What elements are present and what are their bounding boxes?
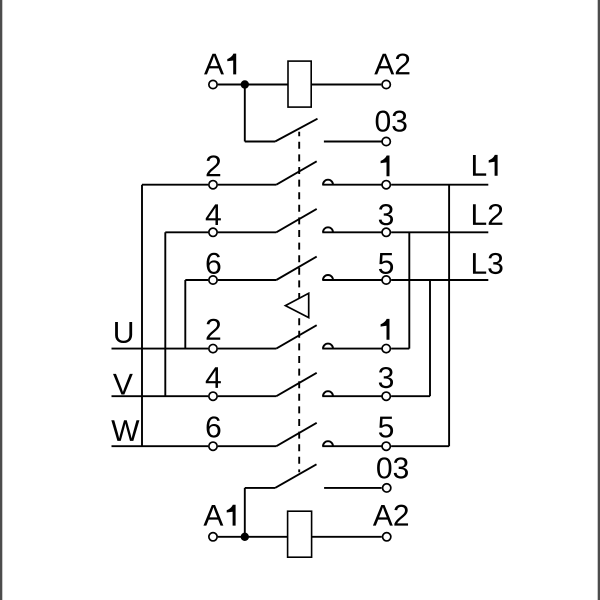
- fixed contact lead 3 (bottom contactor): [322, 395, 381, 397]
- aux contact 03 blade (bottom): [275, 464, 316, 488]
- label "1" (bottom contactor right terminal): [381, 319, 390, 340]
- wire U line to terminal 2 (bottom): [112, 348, 209, 350]
- wire terminal 2 bus down to W row: [141, 185, 143, 447]
- wire W line to terminal 6 (bottom): [112, 445, 209, 447]
- wire terminal 1 to L1: [391, 184, 488, 186]
- wire coil K1 to A2 (top): [311, 84, 381, 86]
- label "1" (top contactor right terminal): [381, 156, 390, 177]
- wire junction to coil K2: [245, 536, 288, 538]
- wire terminal 2 to blade pivot (bottom): [218, 348, 276, 350]
- label "A" of A1 (top coil): [204, 54, 224, 75]
- junction dot at A1 (bottom): [241, 533, 249, 541]
- fixed contact hook 3 (bottom contactor): [323, 391, 333, 396]
- fixed contact lead 1 (bottom contactor): [322, 348, 381, 350]
- wire terminal 4 bus down to V row: [164, 232, 166, 396]
- wire terminal 2 to blade pivot: [218, 184, 276, 186]
- terminal 4 (bottom contactor): [209, 392, 217, 400]
- fixed contact lead 5 (top contactor): [322, 279, 381, 281]
- label "1" of A1 (top coil): [227, 54, 236, 75]
- wire to aux blade pivot (bottom): [245, 487, 275, 489]
- label "2" (bottom contactor left terminal): [207, 319, 221, 340]
- wire junction to coil K1: [245, 84, 288, 86]
- contact blade 6-5 (top contactor): [276, 257, 316, 280]
- terminal 1 (top contactor): [382, 181, 390, 189]
- label "V" (motor phase): [113, 374, 133, 395]
- label "A2" (bottom coil): [373, 505, 393, 526]
- terminal 6 (top contactor): [209, 276, 217, 284]
- terminal A1 (top): [209, 80, 217, 88]
- contact blade 4-3 (bottom contactor): [276, 373, 316, 396]
- wire terminal 3 to L2: [391, 231, 488, 233]
- terminal 03 (bottom): [383, 484, 391, 492]
- fixed contact lead 5 (bottom contactor): [322, 445, 381, 447]
- wire V line to terminal 4 (bottom): [112, 395, 209, 397]
- label "L" of L1: [473, 155, 486, 176]
- coil K1 (top contactor coil): [288, 61, 311, 107]
- terminal A1 (bottom): [209, 533, 217, 541]
- dashed mechanical linkage line: [298, 132, 300, 473]
- left page edge line: [0, 0, 2, 600]
- label "5" (bottom contactor right terminal): [379, 417, 393, 438]
- wire A1 to junction (top): [218, 84, 245, 86]
- contact blade 2-1 (top contactor): [276, 161, 316, 184]
- fixed contact hook 1 (top contactor): [323, 180, 333, 185]
- terminal 4 (top contactor): [209, 228, 217, 236]
- coil K2 (bottom contactor coil): [288, 511, 312, 557]
- wire terminal 6 to blade pivot: [218, 279, 276, 281]
- junction dot at A1 (top): [241, 80, 249, 88]
- label "5" (top contactor right terminal): [379, 253, 393, 274]
- wire L3 bus down to bottom terminal 3: [429, 280, 431, 396]
- wire terminal 4 to blade pivot (bottom): [218, 395, 276, 397]
- aux contact 03 blade (top): [275, 119, 317, 142]
- label "L3": [473, 253, 486, 274]
- wire terminal 1 to crossover bus (bottom): [391, 348, 409, 350]
- label "6" (top contactor left terminal): [207, 253, 221, 274]
- terminal 1 (bottom contactor): [382, 344, 390, 352]
- contact blade 4-3 (top contactor): [276, 209, 316, 232]
- label "03" (bottom aux contact): [377, 457, 391, 478]
- contact blade 2-1 (bottom contactor): [276, 325, 316, 348]
- label "4" (bottom contactor left terminal): [206, 367, 221, 388]
- label "W" (motor phase): [111, 420, 139, 441]
- label "6" (bottom contactor left terminal): [207, 416, 221, 437]
- terminal 6 (bottom contactor): [209, 442, 217, 450]
- terminal 5 (bottom contactor): [382, 442, 390, 450]
- label "4" (top contactor left terminal): [206, 204, 221, 225]
- label "3" (bottom contactor right terminal): [379, 367, 393, 388]
- aux contact 03 fixed lead (top): [324, 141, 382, 143]
- terminal 5 (top contactor): [382, 276, 390, 284]
- wire terminal 5 to L3: [391, 279, 488, 281]
- label "03" (top aux contact): [376, 111, 390, 132]
- label "U" (motor phase): [115, 322, 132, 343]
- label "3" (top contactor right terminal): [379, 204, 393, 225]
- wire terminal 6 bus down to U row: [184, 280, 186, 349]
- right page edge line: [598, 0, 600, 600]
- label "1" of L1: [489, 155, 498, 176]
- wire coil K2 to A2 (bottom): [312, 536, 382, 538]
- fixed contact lead 3 (top contactor): [322, 231, 381, 233]
- wire junction down to aux contact (top): [244, 85, 246, 142]
- terminal A2 (top): [382, 80, 390, 88]
- fixed contact hook 5 (top contactor): [323, 275, 333, 280]
- wire L2 bus down to bottom terminal 1: [408, 232, 410, 348]
- label "2" (top contactor left terminal): [207, 155, 221, 176]
- wire left bus to terminal 6 (top): [185, 279, 208, 281]
- wire left bus to terminal 2 (top): [142, 184, 208, 186]
- wire terminal 6 to blade pivot (bottom): [218, 445, 276, 447]
- terminal 3 (bottom contactor): [382, 392, 390, 400]
- terminal A2 (bottom): [383, 533, 391, 541]
- aux contact 03 fixed lead (bottom): [324, 487, 382, 489]
- wire terminal 4 to blade pivot: [218, 231, 276, 233]
- wire left bus to terminal 4 (top): [165, 231, 208, 233]
- terminal 3 (top contactor): [382, 228, 390, 236]
- label "A2" (top coil): [374, 54, 394, 75]
- wire terminal 3 to crossover bus (bottom): [391, 395, 430, 397]
- terminal 2 (top contactor): [209, 181, 217, 189]
- fixed contact lead 1 (top contactor): [322, 184, 381, 186]
- fixed contact hook 5 (bottom contactor): [323, 441, 333, 446]
- contact blade 6-5 (bottom contactor): [276, 423, 316, 446]
- label "A" of A1 (bottom coil): [203, 505, 223, 526]
- terminal 2 (bottom contactor): [209, 344, 217, 352]
- wire L1 bus down to bottom terminal 5: [448, 185, 450, 447]
- wire terminal 5 to crossover bus (bottom): [391, 445, 449, 447]
- mechanical interlock triangle: [285, 293, 308, 317]
- terminal 03 (top): [382, 137, 390, 145]
- wire junction up to aux pivot (bottom): [244, 488, 246, 537]
- wire to aux blade pivot (top): [245, 141, 275, 143]
- wire A1 to junction (bottom): [218, 536, 245, 538]
- fixed contact hook 1 (bottom contactor): [323, 344, 333, 349]
- fixed contact hook 3 (top contactor): [323, 227, 333, 232]
- label "1" of A1 (bottom coil): [227, 505, 236, 526]
- label "L2": [473, 204, 486, 225]
